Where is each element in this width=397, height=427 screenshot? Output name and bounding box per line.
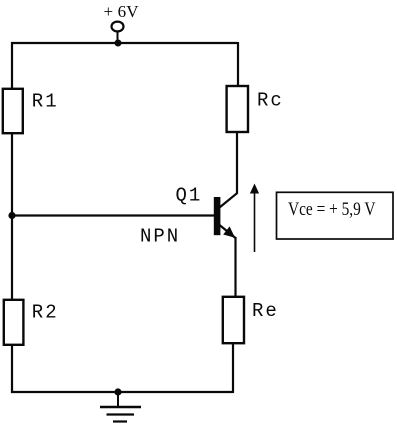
transistor Q1 emitter arrowhead [223,226,235,237]
annotation box Vce [277,192,394,239]
wire supply stub [117,32,119,44]
svg-text:NPN: NPN [140,226,180,248]
node base junction [8,212,15,219]
wire top rail [11,42,238,44]
wire Rc to collector [236,132,238,194]
ground [100,392,141,422]
wire node to R2 [11,216,13,301]
node supply junction [115,40,122,47]
svg-text:R1: R1 [32,91,59,113]
wire R1 to base node [11,133,13,216]
svg-text:Rc: Rc [257,90,284,112]
wire left upper [11,42,13,90]
resistor Rc [227,86,248,132]
svg-text:Vce = + 5,9 V: Vce = + 5,9 V [288,199,376,220]
svg-text:+ 6V: + 6V [104,2,140,21]
transistor Q1 base bar [214,197,221,235]
wire base [12,214,215,216]
wire emitter to Re [234,237,236,298]
current direction arrow [250,184,259,253]
svg-text:Re: Re [252,300,279,322]
svg-text:R2: R2 [32,302,59,324]
wire Rc top [237,42,239,87]
svg-text:Q1: Q1 [176,184,203,206]
node ground junction [114,388,121,395]
wire bottom rail [11,391,233,393]
wire R2 to bottom rail [11,345,13,393]
resistor R2 [4,300,24,345]
resistor R1 [3,89,23,133]
wire Re to bottom rail [232,343,234,393]
transistor Q1 emitter lead [220,225,236,238]
resistor Re [223,297,244,343]
transistor Q1 collector lead [220,193,238,208]
supply terminal circle [112,22,124,32]
